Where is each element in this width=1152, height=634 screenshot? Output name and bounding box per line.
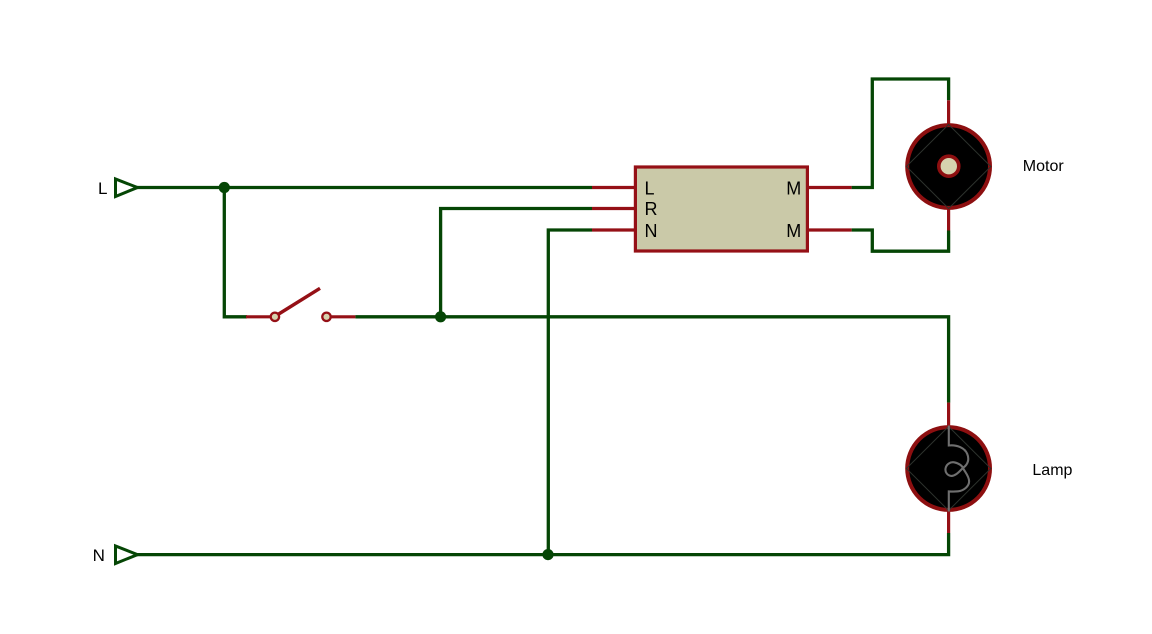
svg-text:Lamp: Lamp xyxy=(1032,462,1072,479)
svg-text:M: M xyxy=(786,178,801,198)
svg-text:L: L xyxy=(645,178,655,198)
svg-text:N: N xyxy=(645,221,658,241)
svg-text:L: L xyxy=(98,179,107,198)
svg-text:R: R xyxy=(645,199,658,219)
svg-text:Motor: Motor xyxy=(1023,158,1065,175)
svg-text:N: N xyxy=(93,546,105,565)
svg-text:M: M xyxy=(786,221,801,241)
